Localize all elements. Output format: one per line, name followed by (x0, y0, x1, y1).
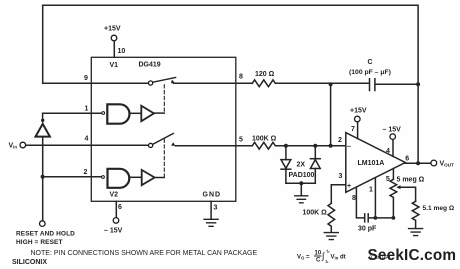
svg-text:t₁: t₁ (326, 259, 329, 264)
svg-text:2: 2 (84, 169, 88, 176)
svg-text:3: 3 (214, 205, 218, 212)
svg-text:6: 6 (118, 204, 122, 211)
svg-text:3: 3 (339, 173, 343, 180)
svg-text:2X: 2X (297, 162, 306, 169)
svg-text:SILICONIX: SILICONIX (12, 259, 47, 266)
svg-text:5: 5 (386, 176, 390, 183)
svg-text:V1: V1 (110, 62, 119, 69)
svg-text:1: 1 (369, 187, 373, 194)
svg-text:t₂: t₂ (327, 249, 330, 254)
svg-text:C: C (368, 59, 373, 66)
svg-text:30 pF: 30 pF (358, 226, 377, 233)
svg-text:PAD100: PAD100 (289, 172, 315, 179)
svg-text:RESET AND HOLD: RESET AND HOLD (16, 230, 75, 237)
svg-text:Vin: Vin (9, 142, 18, 149)
svg-text:C: C (316, 258, 321, 264)
svg-text:2: 2 (338, 137, 342, 144)
svg-text:+15V: +15V (350, 108, 367, 115)
svg-text:+: + (347, 183, 351, 190)
svg-text:4: 4 (85, 136, 89, 143)
svg-text:GND: GND (203, 192, 222, 199)
svg-text:V2: V2 (110, 192, 119, 199)
svg-text:– 15V: – 15V (104, 228, 123, 235)
svg-text:HIGH = RESET: HIGH = RESET (16, 239, 63, 246)
svg-text:5 meg Ω: 5 meg Ω (397, 177, 425, 184)
svg-text:+15V: +15V (104, 26, 121, 33)
svg-text:100K Ω: 100K Ω (252, 135, 277, 142)
svg-text:1: 1 (85, 106, 89, 113)
svg-text:4: 4 (386, 148, 390, 155)
svg-text:– 15V: – 15V (383, 127, 402, 134)
svg-text:6: 6 (405, 156, 409, 163)
svg-text:9: 9 (84, 75, 88, 82)
svg-text:Vin dt: Vin dt (331, 255, 346, 261)
svg-text:(100 pF – μF): (100 pF – μF) (349, 69, 391, 76)
svg-text:100K Ω: 100K Ω (303, 210, 328, 217)
svg-text:8: 8 (239, 74, 243, 81)
svg-text:10: 10 (118, 48, 126, 55)
svg-text:5.1 meg Ω: 5.1 meg Ω (423, 205, 455, 212)
svg-text:LM101A: LM101A (358, 160, 385, 167)
svg-text:DG419: DG419 (139, 62, 161, 69)
svg-text:120 Ω: 120 Ω (255, 71, 275, 78)
svg-text:VOUT: VOUT (440, 161, 455, 168)
svg-text:7: 7 (351, 126, 355, 133)
svg-text:NOTE: PIN CONNECTIONS SHOWN AR: NOTE: PIN CONNECTIONS SHOWN ARE FOR META… (31, 250, 258, 257)
svg-text:SeekIC.com: SeekIC.com (368, 247, 457, 264)
svg-text:8: 8 (352, 195, 356, 202)
svg-text:5: 5 (239, 137, 243, 144)
svg-text:VO =: VO = (297, 255, 310, 261)
svg-text:–: – (347, 144, 351, 151)
